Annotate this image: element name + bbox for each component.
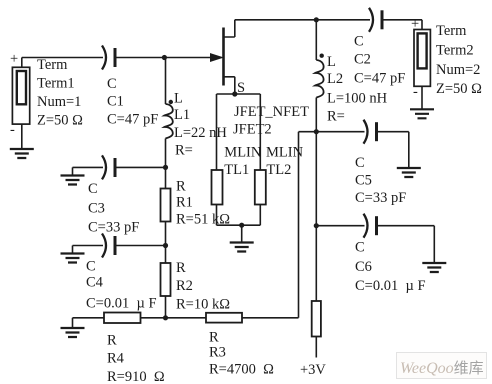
svg-text:C: C	[355, 240, 365, 256]
ground for Term2	[410, 109, 434, 118]
svg-text:L2: L2	[327, 71, 343, 87]
wire R2 bottom vertical	[165, 296, 167, 318]
svg-text:C=0.01 µ F: C=0.01 µ F	[86, 296, 157, 312]
svg-text:R=4700 Ω: R=4700 Ω	[209, 362, 274, 378]
svg-text:C: C	[355, 155, 365, 171]
svg-text:R: R	[176, 179, 186, 195]
svg-text:-: -	[10, 122, 15, 138]
svg-text:C2: C2	[354, 52, 371, 68]
inductor L1	[164, 104, 172, 139]
svg-text:C=47 pF: C=47 pF	[107, 112, 158, 128]
svg-text:C: C	[86, 259, 96, 275]
inductor L2	[315, 60, 323, 98]
wire C3 net	[73, 167, 166, 245]
svg-text:R: R	[176, 260, 186, 276]
svg-text:JFET_NFET: JFET_NFET	[234, 104, 309, 120]
wire term1 top stub	[21, 58, 23, 68]
wire R3 riser and C5 net	[299, 132, 435, 318]
transistor Q1 JFET	[211, 20, 235, 94]
ground for C3	[72, 167, 74, 175]
resistor R6	[312, 301, 321, 337]
svg-text:R=: R=	[327, 109, 345, 125]
wire drain net top	[235, 17, 422, 29]
svg-text:TL1: TL1	[224, 162, 249, 178]
svg-text:C=0.01 µ F: C=0.01 µ F	[355, 278, 426, 294]
capacitor C3	[102, 155, 115, 179]
label R3	[209, 330, 274, 378]
svg-text:R=910 Ω: R=910 Ω	[107, 369, 165, 384]
svg-text:R: R	[107, 333, 117, 349]
svg-text:C: C	[107, 76, 117, 92]
wire R1-R2 vertical	[165, 222, 167, 264]
label C1	[107, 76, 158, 128]
wire L1 branch vertical	[165, 58, 167, 189]
capacitor C6	[364, 214, 377, 238]
svg-text:R4: R4	[107, 351, 125, 367]
node C5 junction	[314, 129, 319, 134]
resistor R2	[161, 263, 171, 296]
svg-text:Term2: Term2	[436, 43, 474, 59]
svg-text:MLIN: MLIN	[266, 145, 304, 161]
resistor R4	[104, 313, 141, 324]
label Term1	[10, 51, 83, 138]
svg-text:L: L	[174, 91, 183, 107]
svg-text:R=10 kΩ: R=10 kΩ	[176, 297, 230, 313]
source Term2	[414, 30, 430, 109]
svg-text:C=33 pF: C=33 pF	[355, 190, 406, 206]
label R4	[107, 333, 165, 384]
wire C6 net	[316, 226, 434, 263]
svg-text:C: C	[88, 181, 98, 197]
svg-text:Num=2: Num=2	[436, 62, 480, 78]
label L1	[174, 91, 227, 159]
ground for R4 net	[61, 328, 85, 337]
svg-text:R3: R3	[209, 345, 226, 361]
node S junction	[232, 91, 237, 96]
svg-text:+3V: +3V	[300, 362, 326, 378]
subcircuit box with MLIN TL1 TL2	[217, 91, 261, 242]
svg-text:Term: Term	[37, 57, 68, 73]
svg-text:C=33 pF: C=33 pF	[88, 220, 139, 236]
svg-text:L: L	[327, 54, 336, 70]
svg-text:C1: C1	[107, 94, 124, 110]
label C2	[354, 34, 405, 87]
svg-text:JFET2: JFET2	[233, 122, 272, 138]
node drain junction	[314, 17, 319, 22]
MLIN TL1	[212, 170, 223, 205]
svg-text:MLIN: MLIN	[224, 145, 262, 161]
node L2 pin dot	[320, 54, 324, 58]
svg-text:L=22 nH: L=22 nH	[174, 125, 227, 141]
svg-text:+: +	[10, 51, 18, 67]
label R2	[176, 260, 230, 313]
resistor R3	[206, 313, 242, 323]
svg-text:C6: C6	[355, 259, 372, 275]
svg-text:R2: R2	[176, 278, 193, 294]
node C6 junction	[314, 223, 319, 228]
label C5	[355, 155, 406, 206]
svg-text:TL2: TL2	[266, 162, 291, 178]
svg-text:C: C	[354, 34, 364, 50]
ground for C6	[422, 263, 446, 272]
svg-text:R=: R=	[175, 143, 193, 159]
svg-text:+: +	[411, 16, 419, 32]
ground for Term1	[10, 149, 34, 158]
svg-text:R1: R1	[176, 195, 193, 211]
label L2	[327, 54, 388, 125]
capacitor C4	[102, 234, 115, 258]
wire bottom net	[73, 318, 299, 328]
capacitor C1	[102, 46, 115, 70]
svg-text:C5: C5	[355, 173, 372, 189]
svg-text:Term1: Term1	[37, 76, 75, 92]
svg-text:Num=1: Num=1	[37, 94, 81, 110]
svg-text:L1: L1	[174, 107, 190, 123]
wire C4 net	[73, 245, 166, 247]
ground for C5	[397, 168, 421, 177]
node C3 junction	[163, 165, 168, 170]
ground for C4	[61, 246, 85, 263]
svg-text:-: -	[413, 84, 418, 100]
svg-text:Z=50 Ω: Z=50 Ω	[37, 113, 83, 129]
source Term1	[12, 67, 29, 148]
node bottom junction	[163, 315, 168, 320]
svg-text:R=51 kΩ: R=51 kΩ	[176, 212, 230, 228]
ground under box	[230, 243, 254, 252]
label JFET_NFET JFET2	[224, 104, 309, 178]
label R1	[176, 179, 230, 228]
label Term2	[411, 16, 482, 100]
label C4	[86, 259, 157, 312]
resistor R1	[161, 189, 171, 222]
watermark WeeQoo	[396, 352, 487, 379]
svg-text:Z=50 Ω: Z=50 Ω	[436, 81, 482, 97]
node L1 pin dot	[169, 100, 173, 104]
capacitor C2	[369, 8, 382, 32]
node gate/C1 junction	[162, 55, 167, 60]
svg-text:C=47 pF: C=47 pF	[354, 71, 405, 87]
svg-text:C3: C3	[88, 201, 105, 217]
wire gate net horizontal	[22, 57, 222, 59]
MLIN TL2	[255, 170, 266, 205]
svg-text:S: S	[237, 80, 245, 96]
label C6	[355, 240, 426, 295]
wire L2 branch vertical	[314, 20, 319, 358]
svg-text:R: R	[209, 330, 219, 346]
node box ground junction	[239, 223, 244, 228]
node C4 junction	[163, 243, 168, 248]
svg-text:C4: C4	[86, 275, 104, 291]
label C3	[88, 181, 139, 236]
svg-text:Term: Term	[436, 23, 467, 39]
svg-text:L=100 nH: L=100 nH	[327, 91, 388, 107]
capacitor C5	[364, 120, 377, 144]
